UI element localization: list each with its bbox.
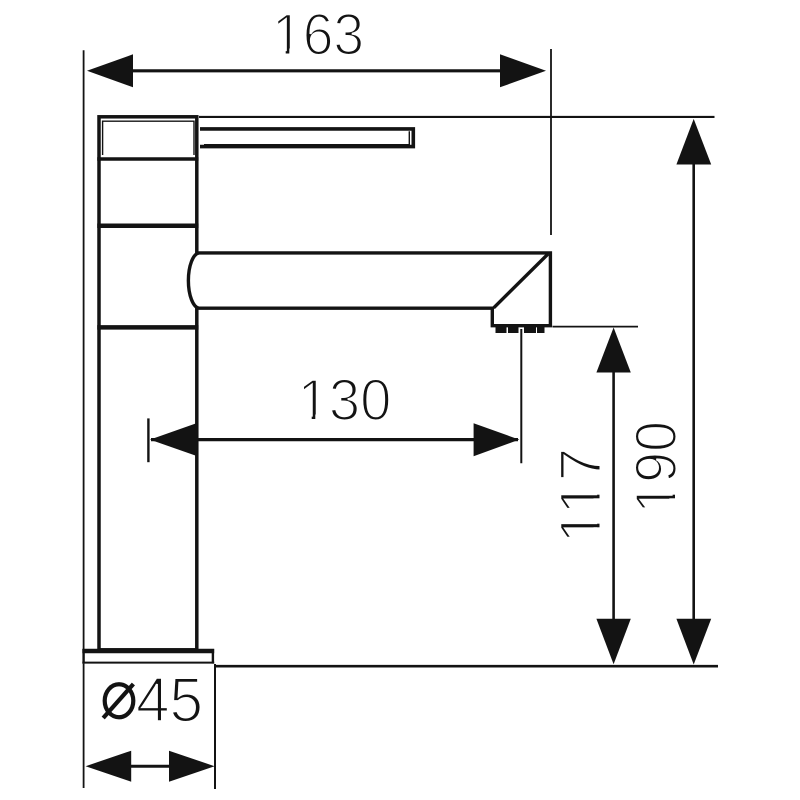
svg-text:45: 45: [136, 665, 203, 736]
diameter right arrowhead: [169, 751, 215, 782]
section divider line 3: [97, 325, 198, 330]
diameter left arrowhead: [86, 751, 132, 782]
130 right extension line: [520, 329, 522, 463]
163 right extension line: [550, 49, 552, 235]
130 right arrowhead: [474, 423, 520, 456]
190 dimension line: [692, 163, 695, 620]
spout tip diagonal: [494, 254, 548, 308]
117 dimension line: [612, 371, 615, 620]
bottom diameter dimension line: [129, 765, 170, 768]
163 dimension line: [128, 69, 505, 72]
handle lever outer: [200, 129, 413, 147]
130 dimension line: [151, 438, 518, 441]
spout body: [188, 253, 550, 326]
cap inner detail lines: [103, 121, 194, 155]
163 left arrowhead: [87, 54, 133, 87]
130 left arrowhead: [150, 423, 198, 457]
ground line: [216, 665, 719, 668]
left extension line (163 / diameter): [83, 50, 85, 788]
section divider line 2: [97, 224, 198, 229]
serif-foot masks to make digit 1 geometric: [277, 49, 677, 543]
190 up arrowhead: [676, 119, 711, 165]
diameter symbol: [103, 684, 133, 718]
base right extension line: [214, 664, 216, 789]
handle lever inner detail: [204, 131, 409, 145]
svg-text:190: 190: [625, 421, 689, 514]
117 up arrowhead: [596, 328, 630, 373]
117 extension line at aerator: [553, 326, 639, 328]
svg-text:130: 130: [298, 368, 392, 433]
aerator teeth: [496, 327, 545, 334]
163 right arrowhead: [500, 54, 546, 87]
190 top extension line: [199, 116, 715, 118]
svg-text:117: 117: [548, 448, 613, 544]
faucet column body: [99, 117, 197, 650]
base plate: [82, 649, 214, 664]
190 down arrowhead: [676, 619, 711, 665]
130 left tick: [147, 418, 149, 462]
cap bottom line: [97, 157, 198, 161]
dimension texts: [136, 2, 689, 736]
117 down arrowhead: [596, 619, 630, 665]
svg-text:163: 163: [272, 2, 364, 67]
arrowheads: [86, 54, 712, 781]
